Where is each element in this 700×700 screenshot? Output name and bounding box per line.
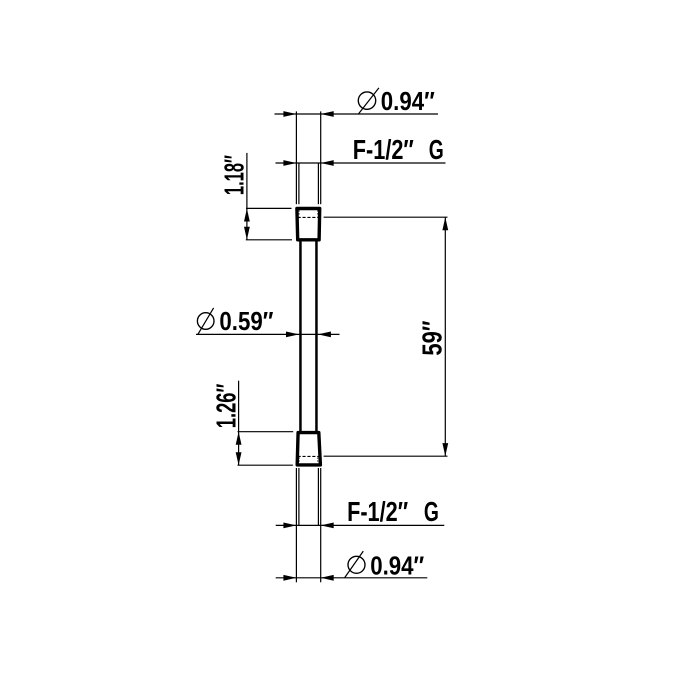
svg-text:1.18″: 1.18″ xyxy=(218,155,249,195)
svg-text:F-1/2″: F-1/2″ xyxy=(347,496,408,527)
svg-text:G: G xyxy=(429,134,444,165)
svg-text:F-1/2″: F-1/2″ xyxy=(353,134,414,165)
svg-text:0.59″: 0.59″ xyxy=(219,308,273,336)
svg-text:G: G xyxy=(424,496,439,527)
svg-text:1.26″: 1.26″ xyxy=(210,384,241,429)
svg-text:0.94″: 0.94″ xyxy=(370,552,424,580)
svg-text:0.94″: 0.94″ xyxy=(381,88,435,116)
svg-text:59″: 59″ xyxy=(417,321,448,356)
